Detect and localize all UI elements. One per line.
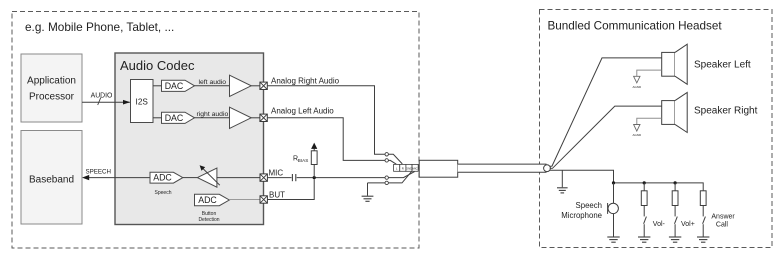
- contact circle right audio: [385, 153, 388, 156]
- svg-text:right audio: right audio: [197, 111, 229, 118]
- svg-text:DAC: DAC: [165, 81, 184, 91]
- headset cable: [458, 164, 547, 172]
- ADC button detection: [195, 194, 230, 223]
- svg-text:AGND: AGND: [632, 133, 642, 137]
- svg-text:Answer: Answer: [711, 213, 735, 220]
- svg-text:Call: Call: [716, 221, 729, 228]
- svg-text:Speaker Left: Speaker Left: [694, 60, 751, 71]
- wire amp to terminal: [251, 85, 260, 87]
- svg-text:MIC: MIC: [269, 169, 284, 178]
- headset ground drop: [557, 170, 568, 193]
- switch vol minus: [644, 206, 666, 237]
- resistor vol plus: [672, 183, 678, 206]
- phone dashed enclosure: [12, 12, 419, 249]
- svg-text:BIAS: BIAS: [298, 158, 308, 163]
- wire ADC to mic amp: [183, 177, 198, 179]
- DAC right channel: [162, 112, 195, 123]
- svg-text:Detection: Detection: [198, 217, 219, 223]
- plug contact strip L R GND MIC: [394, 164, 419, 171]
- AGND speaker left: [632, 70, 661, 89]
- wire I2S to DAC left: [153, 85, 162, 87]
- resistor vol minus: [641, 183, 647, 206]
- wire I2S to DAC right: [153, 117, 162, 119]
- terminal BUT: [260, 196, 267, 203]
- ground answer call: [697, 237, 709, 242]
- svg-text:BUT: BUT: [269, 191, 285, 200]
- node mic bias junction: [313, 176, 316, 179]
- wire to speaker left: [550, 58, 662, 166]
- node vol minus: [643, 181, 646, 184]
- resistor answer call: [700, 191, 706, 206]
- wire circle to plug ring GND: [388, 172, 411, 183]
- svg-text:Audio Codec: Audio Codec: [120, 58, 195, 73]
- speaker left: [662, 44, 751, 84]
- wire amp to terminal: [251, 117, 260, 119]
- terminal Analog Left Audio: [260, 114, 267, 121]
- svg-text:SPEECH: SPEECH: [86, 169, 111, 176]
- svg-text:Vol-: Vol-: [653, 221, 666, 228]
- contact circle GND: [385, 181, 388, 184]
- speech microphone: [561, 183, 618, 237]
- svg-text:ADC: ADC: [153, 173, 172, 183]
- svg-text:Bundled Communication Headset: Bundled Communication Headset: [548, 20, 723, 33]
- svg-text:Speech: Speech: [576, 201, 602, 210]
- wire circle to plug tip L: [388, 160, 396, 164]
- wire SPEECH to baseband with arrow: [82, 169, 150, 181]
- op-amp left headphone driver: [230, 75, 252, 96]
- ADC speech: [150, 172, 183, 196]
- svg-text:AGND: AGND: [632, 85, 642, 89]
- ground vol plus: [669, 237, 681, 242]
- ground microphone: [607, 237, 619, 242]
- ground vol minus: [638, 237, 650, 242]
- wire AUDIO bus: [82, 92, 130, 105]
- svg-text:Vol+: Vol+: [681, 221, 695, 228]
- svg-text:AUDIO: AUDIO: [91, 92, 113, 99]
- svg-text:e.g. Mobile Phone, Tablet, ...: e.g. Mobile Phone, Tablet, ...: [25, 20, 174, 34]
- svg-text:I2S: I2S: [136, 98, 149, 107]
- wire BUT to mic line: [267, 179, 314, 199]
- wire Analog Right Audio to plug: [267, 86, 385, 155]
- wire ADC button to BUT terminal (gray): [229, 199, 260, 201]
- switch answer call: [703, 206, 736, 237]
- audio codec block: [115, 53, 264, 225]
- wire amp to MIC terminal: [217, 177, 260, 179]
- DAC left channel: [162, 80, 195, 91]
- svg-text:Speaker Right: Speaker Right: [694, 105, 758, 116]
- plug body: [419, 160, 458, 177]
- wire circle to plug sleeve MIC: [388, 172, 414, 178]
- node vol plus: [674, 181, 677, 184]
- svg-text:Speech: Speech: [155, 190, 172, 196]
- baseband block: [21, 131, 82, 225]
- contact circle left audio: [385, 159, 388, 162]
- AGND speaker right: [632, 118, 661, 137]
- terminal MIC: [260, 174, 267, 181]
- speaker right: [662, 92, 758, 132]
- contact circle MIC: [385, 176, 388, 179]
- svg-text:left audio: left audio: [199, 79, 227, 86]
- cable end cap: [544, 165, 551, 172]
- svg-text:R: R: [402, 167, 404, 171]
- svg-text:Analog Right Audio: Analog Right Audio: [271, 77, 340, 86]
- svg-text:GND: GND: [406, 167, 412, 171]
- svg-text:Microphone: Microphone: [561, 211, 602, 220]
- svg-text:Baseband: Baseband: [29, 175, 74, 186]
- svg-text:Application: Application: [27, 76, 76, 87]
- wire headset mic bus: [550, 170, 704, 191]
- svg-text:Analog Left Audio: Analog Left Audio: [271, 106, 334, 115]
- wire to speaker right: [550, 106, 662, 168]
- resistor RBIAS: [293, 143, 317, 178]
- headset dashed enclosure: [540, 10, 773, 248]
- svg-text:DAC: DAC: [165, 113, 184, 123]
- node mic branch: [612, 181, 615, 184]
- variable gain mic amp: [197, 165, 219, 187]
- svg-text:ADC: ADC: [198, 195, 217, 205]
- switch vol plus: [675, 206, 695, 237]
- svg-text:MIC: MIC: [413, 167, 418, 171]
- wire circle to plug ring R: [388, 154, 402, 164]
- MIC coupling capacitor: [267, 174, 385, 181]
- svg-text:Button: Button: [202, 211, 217, 217]
- I2S block U-I2S: [131, 80, 154, 123]
- ground phone side: [362, 183, 374, 201]
- terminal Analog Right Audio: [260, 82, 267, 89]
- wire Analog Left Audio to plug: [267, 118, 385, 161]
- wire ground to contact circle: [368, 182, 386, 184]
- wire DAC right to amp, net right audio: [195, 111, 230, 118]
- svg-text:Processor: Processor: [29, 92, 75, 103]
- wire DAC left to amp, net left audio: [195, 79, 230, 86]
- application processor block: [21, 54, 82, 122]
- op-amp right headphone driver: [230, 107, 252, 128]
